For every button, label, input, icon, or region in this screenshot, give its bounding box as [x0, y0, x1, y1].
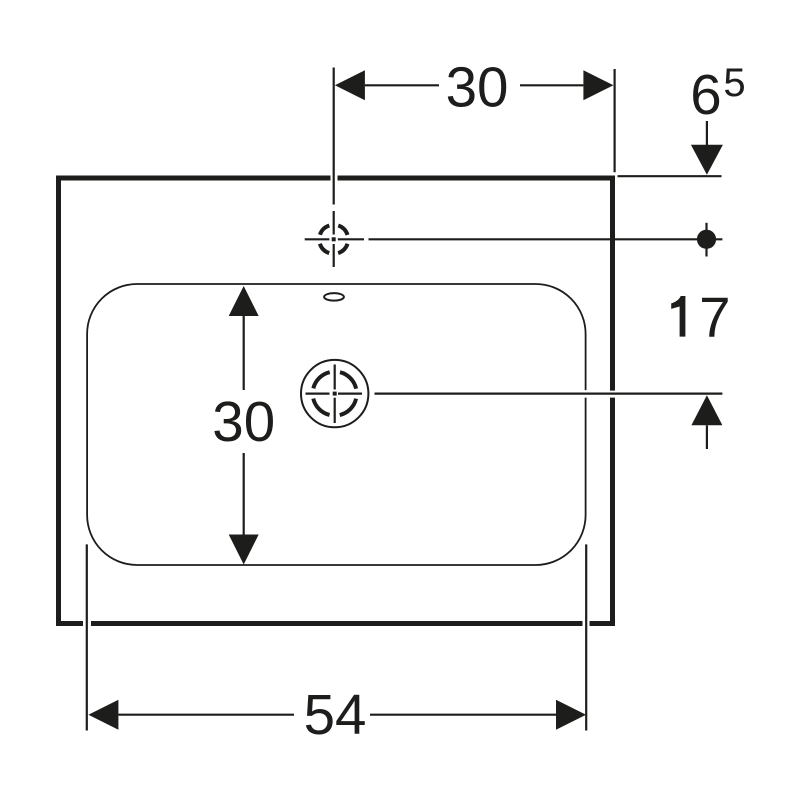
drain: dashed thick ring [313, 372, 357, 416]
vertical dimension 30: upper stem [243, 316, 245, 390]
svg-text:6: 6 [690, 63, 721, 126]
drain: outer thin circle [301, 360, 368, 427]
svg-text:54: 54 [304, 683, 367, 746]
dimension 17: arrow stem [706, 425, 708, 449]
vertical dimension 30: down arrowhead [229, 535, 259, 565]
bottom dimension 54: extension line right [585, 544, 587, 730]
bottom dimension 54: right arrowhead [556, 700, 586, 730]
washbasin outer rectangle (thick outline with gaps at dim-line crossings) [59, 178, 613, 624]
svg-text:30: 30 [446, 55, 509, 118]
overflow slot ellipse [324, 293, 344, 301]
drain axis dimension line to right [375, 393, 723, 395]
faucet hole: dashed thick ring [319, 225, 348, 254]
faucet axis: tick cross at dot [705, 223, 707, 257]
dimension 17: label digit 1 (custom glyph without foot serif) [671, 296, 685, 337]
inner basin rounded outline (gap on right edge at drain dim line) [87, 284, 585, 565]
svg-text:7: 7 [699, 286, 730, 349]
faucet axis dimension line to right [369, 238, 723, 240]
dimension 6(5): arrow stem [706, 121, 708, 147]
faucet hole centerline cross [305, 211, 364, 267]
top dimension 30: extension line left (down to faucet) [333, 68, 335, 205]
drain centerline cross [306, 365, 363, 424]
vertical dimension 30 inside basin: up arrowhead [229, 286, 259, 316]
dimension 6(5): down arrowhead [691, 145, 723, 175]
faucet axis: reference dot [697, 230, 716, 249]
svg-text:30: 30 [212, 390, 275, 453]
dimension 6(5): extension line from rim top edge [618, 175, 722, 177]
top dimension 30: left arrowhead [335, 70, 365, 100]
top dimension 30: right arrowhead [583, 70, 613, 100]
top dimension 30: extension line right [613, 69, 615, 172]
svg-text:5: 5 [723, 61, 745, 105]
dimension 17: up arrowhead [691, 395, 722, 425]
bottom dimension 54: left arrowhead [88, 700, 118, 730]
vertical dimension 30: lower stem [243, 453, 245, 535]
bottom dimension 54: extension line left [86, 544, 88, 730]
bottom dimension 54: dimension line segments [118, 714, 294, 716]
top dimension 30: dimension line segments [365, 84, 439, 86]
